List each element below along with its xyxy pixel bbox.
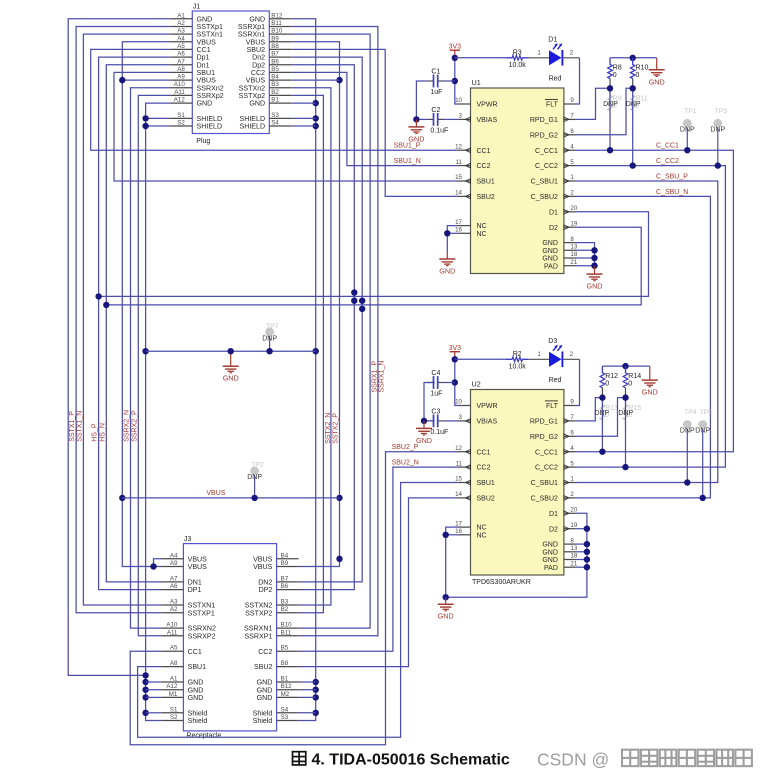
svg-text:R8: R8 [613, 65, 622, 72]
svg-text:GND: GND [542, 542, 558, 549]
svg-text:18: 18 [570, 251, 577, 258]
svg-text:TP4: TP4 [684, 409, 697, 416]
svg-text:C_SBU1: C_SBU1 [531, 480, 558, 487]
svg-text:13: 13 [570, 244, 577, 251]
wire U1 NC pins 17/16 to ground [447, 226, 458, 252]
svg-text:SSTX1_N: SSTX1_N [77, 411, 84, 442]
junction dots TP4/TP5 [684, 479, 706, 501]
svg-text:RPD_G1: RPD_G1 [530, 117, 558, 124]
svg-text:11: 11 [456, 159, 463, 166]
wire J3.B12 GND stub [299, 689, 316, 691]
svg-text:A11: A11 [167, 629, 178, 636]
svg-text:2: 2 [570, 491, 574, 498]
svg-text:CC2: CC2 [477, 465, 491, 472]
svg-text:R12: R12 [605, 373, 618, 380]
svg-text:J1: J1 [193, 4, 201, 11]
svg-text:10: 10 [455, 399, 462, 406]
svg-text:DNP: DNP [618, 410, 633, 417]
LED D1 Red [548, 36, 562, 82]
junction dots R12/R14 bottoms [599, 394, 629, 400]
svg-text:GND: GND [197, 100, 213, 108]
svg-text:A4: A4 [170, 552, 178, 559]
svg-text:9: 9 [570, 399, 574, 406]
wire SBU2 from J3.B8 up to U2 pin 14 [299, 498, 459, 667]
svg-text:C4: C4 [431, 370, 440, 377]
svg-text:10.0k: 10.0k [509, 363, 527, 370]
resistor R8 0 [608, 58, 622, 89]
junction dots R8/R10 bottoms [607, 85, 636, 91]
ground at R12/R14 [642, 366, 658, 397]
junction dots U1 GND column [591, 247, 597, 269]
svg-text:C_SBU2: C_SBU2 [531, 496, 558, 503]
test point TP7 [262, 323, 278, 351]
junction dot TP2 on VBUS [251, 495, 257, 501]
svg-text:S3: S3 [271, 112, 279, 119]
svg-text:Receptacle: Receptacle [186, 733, 221, 740]
svg-text:HS_P: HS_P [92, 423, 99, 442]
svg-text:5: 5 [570, 159, 574, 166]
wire SSRX1_N from J1.B11 to J3.B11 [291, 27, 378, 636]
svg-text:U2: U2 [472, 380, 481, 389]
wire U2 D2 pin 19 to GND column [576, 528, 587, 530]
svg-text:9: 9 [570, 97, 574, 104]
wire SSTX2_P from J1.B2 to J3.B2 [291, 95, 323, 612]
test point TP3 [710, 108, 727, 166]
net label SSRX1_N (rotated) [379, 361, 386, 393]
net label SBU1_N [394, 158, 421, 165]
svg-text:SSTX2_N: SSTX2_N [325, 413, 332, 444]
svg-text:SSRXP1: SSRXP1 [244, 632, 272, 640]
svg-text:7: 7 [570, 113, 574, 120]
svg-text:SBU2: SBU2 [477, 194, 495, 201]
svg-text:GND: GND [249, 100, 265, 108]
wire J3.M1 GND stub [146, 696, 162, 698]
resistor R12 0 [600, 366, 618, 398]
wire SSRX2_P from J1.A11 to J3.A11 [138, 95, 170, 635]
svg-text:B4: B4 [271, 74, 279, 81]
svg-text:1: 1 [570, 174, 574, 181]
wire SBU2 from J1.B8 to U1 pin 14 [291, 49, 458, 196]
svg-text:R14: R14 [628, 373, 641, 380]
svg-text:3: 3 [459, 414, 463, 421]
svg-text:0.1uF: 0.1uF [430, 429, 448, 436]
svg-text:D1: D1 [548, 36, 557, 43]
svg-text:R10: R10 [636, 65, 649, 72]
svg-text:13: 13 [570, 545, 577, 552]
svg-text:R3: R3 [513, 49, 522, 56]
wire SBU1 from J3.A8 around bottom to U2 pin 15 [138, 483, 459, 738]
svg-text:RPD_G2: RPD_G2 [530, 434, 558, 441]
net label C_CC2 [656, 158, 679, 165]
svg-text:17: 17 [455, 520, 462, 527]
op-amp U2 TPD6S300ARUKR port protector [455, 380, 578, 587]
svg-text:14: 14 [455, 491, 462, 498]
wire C_SBU_N net U1 pin 2 to U2 pin 2 [576, 196, 711, 498]
wire J1.B1 GND stub [291, 102, 315, 104]
wire R2 to LED anode [529, 351, 550, 359]
svg-text:A10: A10 [166, 622, 178, 629]
junction dot VBIAS/GND U2 [421, 418, 427, 424]
svg-text:S1: S1 [170, 706, 178, 713]
ground symbol on shield tie [223, 351, 239, 383]
svg-text:DNP: DNP [247, 474, 262, 481]
svg-text:R2: R2 [513, 351, 522, 358]
svg-text:B1: B1 [281, 676, 289, 683]
svg-text:DNP: DNP [262, 335, 277, 342]
junction dots 3V3 column U2 [452, 356, 458, 386]
wire C2 to VBIAS pin 3 [416, 118, 458, 120]
junction dots U2 GND column [584, 526, 590, 571]
net label SSTX2_P (rotated) [332, 413, 339, 444]
svg-text:S3: S3 [281, 714, 289, 721]
wire VBUS tie across middle [122, 497, 339, 499]
junction dot U1 NC tie [444, 230, 450, 236]
ground at U1 NC pins [439, 252, 455, 276]
wire 3V3 to VPWR pin 10 U1 [455, 57, 459, 104]
wire HS_N from J1.B7 to J3.B7 [291, 57, 362, 582]
svg-text:0: 0 [636, 72, 640, 79]
svg-text:VBIAS: VBIAS [477, 117, 498, 124]
wire J3.M2 GND stub [299, 696, 316, 698]
wire R8 bottom to C_CC1 net [609, 88, 611, 150]
wire SBU1_P from J1.A5 to U1 pin 12 CC1 [91, 49, 459, 150]
wire HS_N from J1.A7 to J3.A7 [106, 65, 170, 582]
ground at U2 NC/GND tie [438, 597, 454, 621]
svg-text:VBUS: VBUS [206, 490, 225, 497]
svg-text:B7: B7 [271, 51, 279, 58]
svg-text:1uF: 1uF [430, 390, 442, 397]
svg-text:10.0k: 10.0k [509, 62, 527, 69]
test point TP1 [680, 108, 697, 150]
svg-text:0: 0 [613, 72, 617, 79]
wire C_CC1 net U1 pin 4 to U2 pin 4 [576, 150, 734, 452]
wire J3.A4 VBUS stub [154, 559, 162, 567]
svg-text:GND: GND [223, 374, 239, 383]
svg-text:B11: B11 [281, 629, 292, 636]
wire J1.S3 shield stub [291, 117, 315, 119]
net label SSTX1_P (rotated) [69, 411, 76, 442]
svg-text:21: 21 [570, 560, 577, 567]
svg-text:CC2: CC2 [477, 163, 491, 170]
svg-text:C_SBU2: C_SBU2 [531, 194, 558, 201]
svg-text:B9: B9 [281, 560, 289, 567]
wire U1 GND pins 8/13/18/21 column [576, 243, 595, 267]
wire SSRX2_N from J1.A10 to J3.A10 [131, 88, 171, 628]
svg-text:VPWR: VPWR [477, 102, 498, 109]
svg-text:D2: D2 [549, 526, 558, 533]
svg-text:0: 0 [628, 380, 632, 387]
wire R12/R14 tops to ground [602, 365, 649, 367]
svg-text:TPD6S300ARUKR: TPD6S300ARUKR [472, 579, 531, 586]
svg-text:NC: NC [477, 223, 487, 230]
svg-text:SBU2: SBU2 [254, 663, 273, 671]
svg-text:DNP: DNP [695, 428, 710, 435]
svg-text:4: 4 [570, 445, 574, 452]
svg-text:C_SBU1: C_SBU1 [531, 179, 558, 186]
svg-text:RPD_G1: RPD_G1 [530, 419, 558, 426]
wire RPD_G2 pin 6 to R10 bottom [576, 88, 633, 135]
svg-text:SBU1: SBU1 [188, 663, 207, 671]
ground at R8/R10 [649, 58, 665, 87]
wire J1.S4 shield stub [291, 125, 315, 127]
wire J3.B1 GND stub [299, 681, 316, 683]
svg-text:3: 3 [459, 113, 463, 120]
net label SBU1_P [394, 143, 421, 150]
junction dot R14 top [622, 363, 628, 369]
svg-text:A7: A7 [177, 58, 185, 65]
svg-text:4. TIDA-050016 Schematic: 4. TIDA-050016 Schematic [312, 752, 510, 769]
wire J3.S4 shield stub [299, 712, 316, 714]
connector J1 USB-C plug [170, 4, 291, 146]
svg-text:5: 5 [570, 460, 574, 467]
svg-text:B12: B12 [271, 12, 283, 19]
svg-text:C_CC2: C_CC2 [656, 158, 679, 165]
connector J3 USB-C receptacle [161, 536, 298, 739]
capacitor C1 1uF [427, 68, 444, 96]
svg-text:B5: B5 [271, 66, 279, 73]
svg-text:A12: A12 [174, 97, 186, 104]
svg-text:C_CC1: C_CC1 [535, 148, 558, 155]
svg-text:0.1uF: 0.1uF [430, 127, 448, 134]
svg-text:S4: S4 [281, 706, 289, 713]
svg-text:SBU2_N: SBU2_N [392, 460, 419, 467]
junction dot J3.A4/A9 VBUS [150, 563, 156, 569]
svg-text:B1: B1 [271, 97, 279, 104]
svg-text:B10: B10 [271, 28, 283, 35]
svg-text:19: 19 [570, 220, 577, 227]
svg-text:B3: B3 [281, 599, 289, 606]
svg-text:14: 14 [455, 190, 462, 197]
wire C4 to VBIAS rail [424, 383, 455, 421]
svg-text:16: 16 [455, 227, 462, 234]
svg-text:C2: C2 [431, 107, 440, 114]
net label SSTX2_N (rotated) [325, 413, 332, 444]
label DNP for R9 [603, 101, 618, 108]
net label HS_N (rotated) [99, 423, 106, 442]
svg-text:A10: A10 [174, 81, 186, 88]
wire SBU2_N from J3.B5 up to U2 pin 11 CC2 [299, 467, 459, 651]
svg-text:4: 4 [570, 143, 574, 150]
power 3V3 rail U2 [449, 345, 462, 359]
svg-text:A3: A3 [177, 28, 185, 35]
test point TP2 [247, 461, 264, 498]
svg-text:NC: NC [477, 525, 487, 532]
svg-text:GND: GND [188, 694, 204, 702]
svg-text:B3: B3 [271, 81, 279, 88]
wire SSTX1_P from J1.A2 to J3.A2 [76, 27, 170, 613]
svg-text:A8: A8 [170, 660, 178, 667]
svg-text:SSTXP2: SSTXP2 [245, 609, 272, 617]
svg-text:Plug: Plug [196, 138, 210, 145]
svg-text:B8: B8 [271, 43, 279, 50]
test point TP4 [680, 409, 697, 482]
svg-text:1: 1 [537, 351, 541, 358]
net label SBU2_P [392, 444, 419, 451]
svg-text:S2: S2 [177, 120, 185, 127]
svg-text:SBU2_P: SBU2_P [392, 444, 419, 451]
wire J3.S1 shield stub [146, 712, 162, 714]
wire U2 NC pins 17/16 down to ground tie [446, 513, 587, 597]
svg-text:S1: S1 [177, 112, 185, 119]
wire C1 to VBIAS rail [416, 81, 454, 119]
wire J1.A9 VBUS stub to trunk [122, 79, 170, 81]
svg-text:15: 15 [455, 174, 462, 181]
svg-text:7: 7 [570, 414, 574, 421]
svg-text:C_SBU_P: C_SBU_P [656, 173, 688, 180]
resistor R14 0 [623, 366, 641, 398]
svg-text:FLT: FLT [546, 403, 559, 410]
svg-text:NC: NC [477, 231, 487, 238]
svg-text:A3: A3 [170, 599, 178, 606]
svg-text:Red: Red [549, 75, 562, 82]
svg-text:Shield: Shield [253, 717, 273, 725]
svg-text:A1: A1 [170, 676, 178, 683]
svg-text:C_CC2: C_CC2 [535, 163, 558, 170]
test point TP5 [695, 409, 712, 498]
svg-text:GND: GND [257, 694, 273, 702]
wire SSTX1_N from J1.A3 to J3.A3 [83, 34, 170, 605]
wire R12 bottom to C_CC1 net [601, 398, 603, 452]
svg-text:21: 21 [570, 259, 577, 266]
wire GND/shield trunk from J1.B12 down right of J1 to J3 ground pins [291, 19, 315, 721]
wire SSRX1_P from J1.B10 to J3.B10 [291, 34, 370, 628]
svg-text:B9: B9 [271, 35, 279, 42]
svg-text:A2: A2 [177, 20, 185, 27]
svg-text:DNP: DNP [680, 428, 695, 435]
svg-text:TP3: TP3 [715, 108, 728, 115]
svg-text:C_SBU_N: C_SBU_N [656, 189, 688, 196]
svg-text:CC1: CC1 [477, 148, 491, 155]
svg-text:PAD: PAD [544, 565, 558, 572]
svg-text:GND: GND [649, 77, 665, 86]
svg-text:VPWR: VPWR [477, 403, 498, 410]
svg-text:A2: A2 [170, 606, 178, 613]
svg-text:20: 20 [570, 205, 577, 212]
svg-text:A1: A1 [177, 12, 185, 19]
svg-text:19: 19 [570, 522, 577, 529]
svg-text:DNP: DNP [626, 101, 641, 108]
wire C_SBU_P net U1 pin 1 to U2 pin 1 [576, 181, 718, 483]
svg-text:GND: GND [542, 549, 558, 556]
svg-text:SBU1: SBU1 [477, 179, 495, 186]
junction dots C_CC nets at R taps [599, 147, 636, 470]
wire R14 bottom to C_CC2 net [625, 398, 627, 468]
svg-text:B5: B5 [281, 645, 289, 652]
svg-text:B8: B8 [281, 660, 289, 667]
svg-text:20: 20 [570, 507, 577, 514]
resistor R13 DNP (not populated) [600, 398, 618, 428]
wire CC1 from J3.A5 around bottom to U2 pin 12 [130, 452, 458, 745]
svg-text:C_CC2: C_CC2 [535, 465, 558, 472]
svg-text:GND: GND [542, 557, 558, 564]
svg-text:16: 16 [455, 528, 462, 535]
svg-text:A9: A9 [177, 74, 185, 81]
svg-text:SSRXP2: SSRXP2 [188, 632, 216, 640]
svg-text:SSTX1_P: SSTX1_P [69, 411, 76, 442]
svg-text:B4: B4 [281, 552, 289, 559]
svg-text:B12: B12 [281, 683, 293, 690]
wire SBU1_N from J1.B5 to U1 pin 11 CC2 [291, 72, 458, 165]
svg-text:B2: B2 [271, 89, 279, 96]
wire R10 bottom to C_CC2 net [632, 88, 634, 165]
svg-text:GND: GND [438, 612, 454, 621]
svg-text:HS_N: HS_N [99, 423, 106, 442]
svg-text:U1: U1 [472, 78, 481, 87]
wire SBU1 from J1.A8 to U1 pin 15 [114, 72, 459, 181]
svg-text:10: 10 [455, 97, 462, 104]
svg-text:C3: C3 [431, 408, 440, 415]
svg-text:SSRX2_P: SSRX2_P [131, 410, 138, 442]
wire Dp net J1 side to U1 D1 pin 20 [99, 212, 649, 297]
net label SSRX2_N (rotated) [124, 410, 131, 442]
svg-text:6: 6 [570, 430, 574, 437]
LED D3 Red [548, 338, 562, 384]
svg-text:SBU1_P: SBU1_P [394, 143, 421, 150]
net label VBUS [206, 490, 225, 497]
svg-text:18: 18 [570, 553, 577, 560]
svg-text:2: 2 [570, 351, 574, 358]
svg-text:B10: B10 [281, 622, 293, 629]
svg-text:SSTX2_P: SSTX2_P [332, 413, 339, 444]
svg-text:DNP: DNP [710, 126, 725, 133]
capacitor C4 1uF [427, 370, 444, 398]
ground at U1 GND pins [587, 266, 603, 290]
junction dot U2 NC tie [443, 532, 449, 601]
svg-text:RPD_G2: RPD_G2 [530, 132, 558, 139]
junction dots VBUS trunk [119, 77, 125, 501]
svg-text:SHIELD: SHIELD [239, 123, 265, 131]
junction dots right VBUS trunk [336, 77, 342, 562]
svg-text:A6: A6 [170, 583, 178, 590]
svg-text:8: 8 [570, 236, 574, 243]
wire R8/R10 tops to ground [610, 57, 657, 59]
svg-text:A12: A12 [166, 683, 178, 690]
svg-text:DP2: DP2 [259, 586, 273, 594]
svg-text:A7: A7 [170, 575, 178, 582]
label DNP for R13 [594, 410, 609, 417]
resistor R11 DNP (not populated) [630, 88, 648, 118]
wire VBUS trunk from J1.A4 down to J3.A9 [122, 42, 170, 567]
svg-text:SBU2: SBU2 [477, 496, 495, 503]
svg-text:6: 6 [570, 128, 574, 135]
svg-text:15: 15 [455, 476, 462, 483]
net label C_CC1 [656, 143, 679, 150]
net label HS_P (rotated) [92, 423, 99, 442]
wire HS_P from J1.A6 to J3.A6 [99, 57, 171, 590]
junction dots Dp/Dn taps [95, 289, 365, 312]
resistor R2 10.0k [506, 351, 529, 370]
label DNP for R11 [626, 101, 641, 108]
resistor R15 DNP (not populated) [623, 398, 641, 428]
svg-text:TP1: TP1 [684, 108, 697, 115]
svg-text:SSTXP1: SSTXP1 [188, 609, 215, 617]
svg-text:M2: M2 [281, 691, 290, 698]
svg-text:A4: A4 [177, 35, 185, 42]
svg-text:1: 1 [570, 476, 574, 483]
wire 3V3 to VPWR pin 10 U2 [455, 359, 459, 406]
svg-text:D1: D1 [549, 209, 558, 216]
net label C_SBU_P [656, 173, 688, 180]
wire LED cathode to FLT pin 9 U2 [563, 351, 579, 405]
wire RPD_G1 pin 7 to R8 bottom [576, 88, 610, 119]
svg-text:A8: A8 [177, 66, 185, 73]
svg-text:VBUS: VBUS [188, 563, 208, 571]
junction dots left GND/shield column [142, 115, 148, 716]
svg-text:11: 11 [456, 460, 463, 467]
svg-text:12: 12 [455, 445, 462, 452]
svg-text:CC1: CC1 [477, 449, 491, 456]
svg-text:Red: Red [549, 377, 562, 384]
